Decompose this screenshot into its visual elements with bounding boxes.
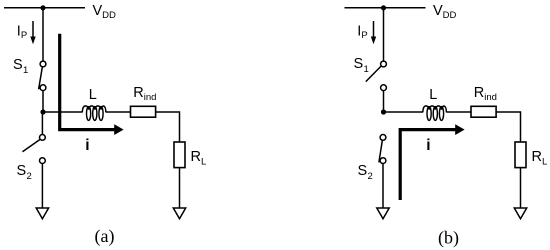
svg-text:VDD: VDD <box>93 3 117 21</box>
svg-text:i: i <box>85 137 89 154</box>
thick current path arrow i (a) <box>60 34 124 135</box>
wire Rind to RL branch (a) <box>156 112 180 142</box>
wire S1 to node A (a) <box>42 91 44 112</box>
arrow IP current (b) <box>371 21 376 44</box>
svg-text:S1: S1 <box>354 56 369 75</box>
wire S2 to ground (a) <box>41 164 43 208</box>
svg-text:RL: RL <box>191 149 207 167</box>
svg-text:i: i <box>426 137 430 154</box>
svg-text:IP: IP <box>17 24 27 42</box>
wire inductor to Rind (b) <box>446 111 471 113</box>
wire RL to ground (a) <box>179 168 181 208</box>
resistor Rind (a) <box>131 106 156 117</box>
switch S2 (b) closed-ish <box>379 135 386 164</box>
thick current path arrow i (b) <box>400 124 464 200</box>
svg-text:IP: IP <box>357 24 367 42</box>
resistor Rind (b) <box>471 106 496 117</box>
resistor RL (a) <box>174 142 185 168</box>
inductor L (a) <box>82 106 106 121</box>
svg-text:L: L <box>89 87 97 103</box>
ground under RL (b) <box>514 208 526 219</box>
wire Rind to RL branch (b) <box>496 112 520 142</box>
switch S2 (a) open <box>23 135 46 164</box>
wire inductor to Rind (a) <box>106 111 131 113</box>
ground under RL (a) <box>173 208 185 219</box>
svg-text:L: L <box>429 87 437 103</box>
resistor RL (b) <box>515 142 526 168</box>
wire S2 to ground (b) <box>382 164 384 208</box>
ground under S2 (a) <box>36 208 48 219</box>
svg-text:S1: S1 <box>13 57 28 76</box>
svg-text:RL: RL <box>532 149 548 167</box>
wire S1 to node B (b) <box>383 91 385 112</box>
switch S1 (b) open <box>366 61 387 91</box>
node B junction dot (b) <box>381 109 386 114</box>
node VDD junction dot (b) <box>381 5 386 10</box>
wire VDD rail (b) <box>345 7 426 9</box>
switch S1 (a) closed-ish <box>39 61 46 91</box>
node A junction dot (a) <box>40 109 45 114</box>
inductor L (b) <box>423 106 447 121</box>
wire RL to ground (b) <box>520 168 522 208</box>
svg-text:Rind: Rind <box>133 85 156 103</box>
svg-text:S2: S2 <box>358 163 373 182</box>
svg-text:Rind: Rind <box>474 85 497 103</box>
svg-text:S2: S2 <box>17 163 32 182</box>
svg-text:(b): (b) <box>438 228 459 249</box>
wire node B to inductor (b) <box>384 111 424 113</box>
arrow IP current (a) <box>30 21 35 44</box>
wire node A to inductor (a) <box>43 111 83 113</box>
wire VDD to S1 (a) <box>42 8 44 61</box>
wire VDD rail (a) <box>4 7 85 9</box>
wire VDD to S1 (b) <box>383 8 385 61</box>
wire node A to S2 (a) <box>41 112 43 134</box>
svg-text:VDD: VDD <box>433 3 457 21</box>
node VDD junction dot (a) <box>40 5 45 10</box>
ground under S2 (b) <box>377 208 389 219</box>
svg-text:(a): (a) <box>95 226 115 247</box>
